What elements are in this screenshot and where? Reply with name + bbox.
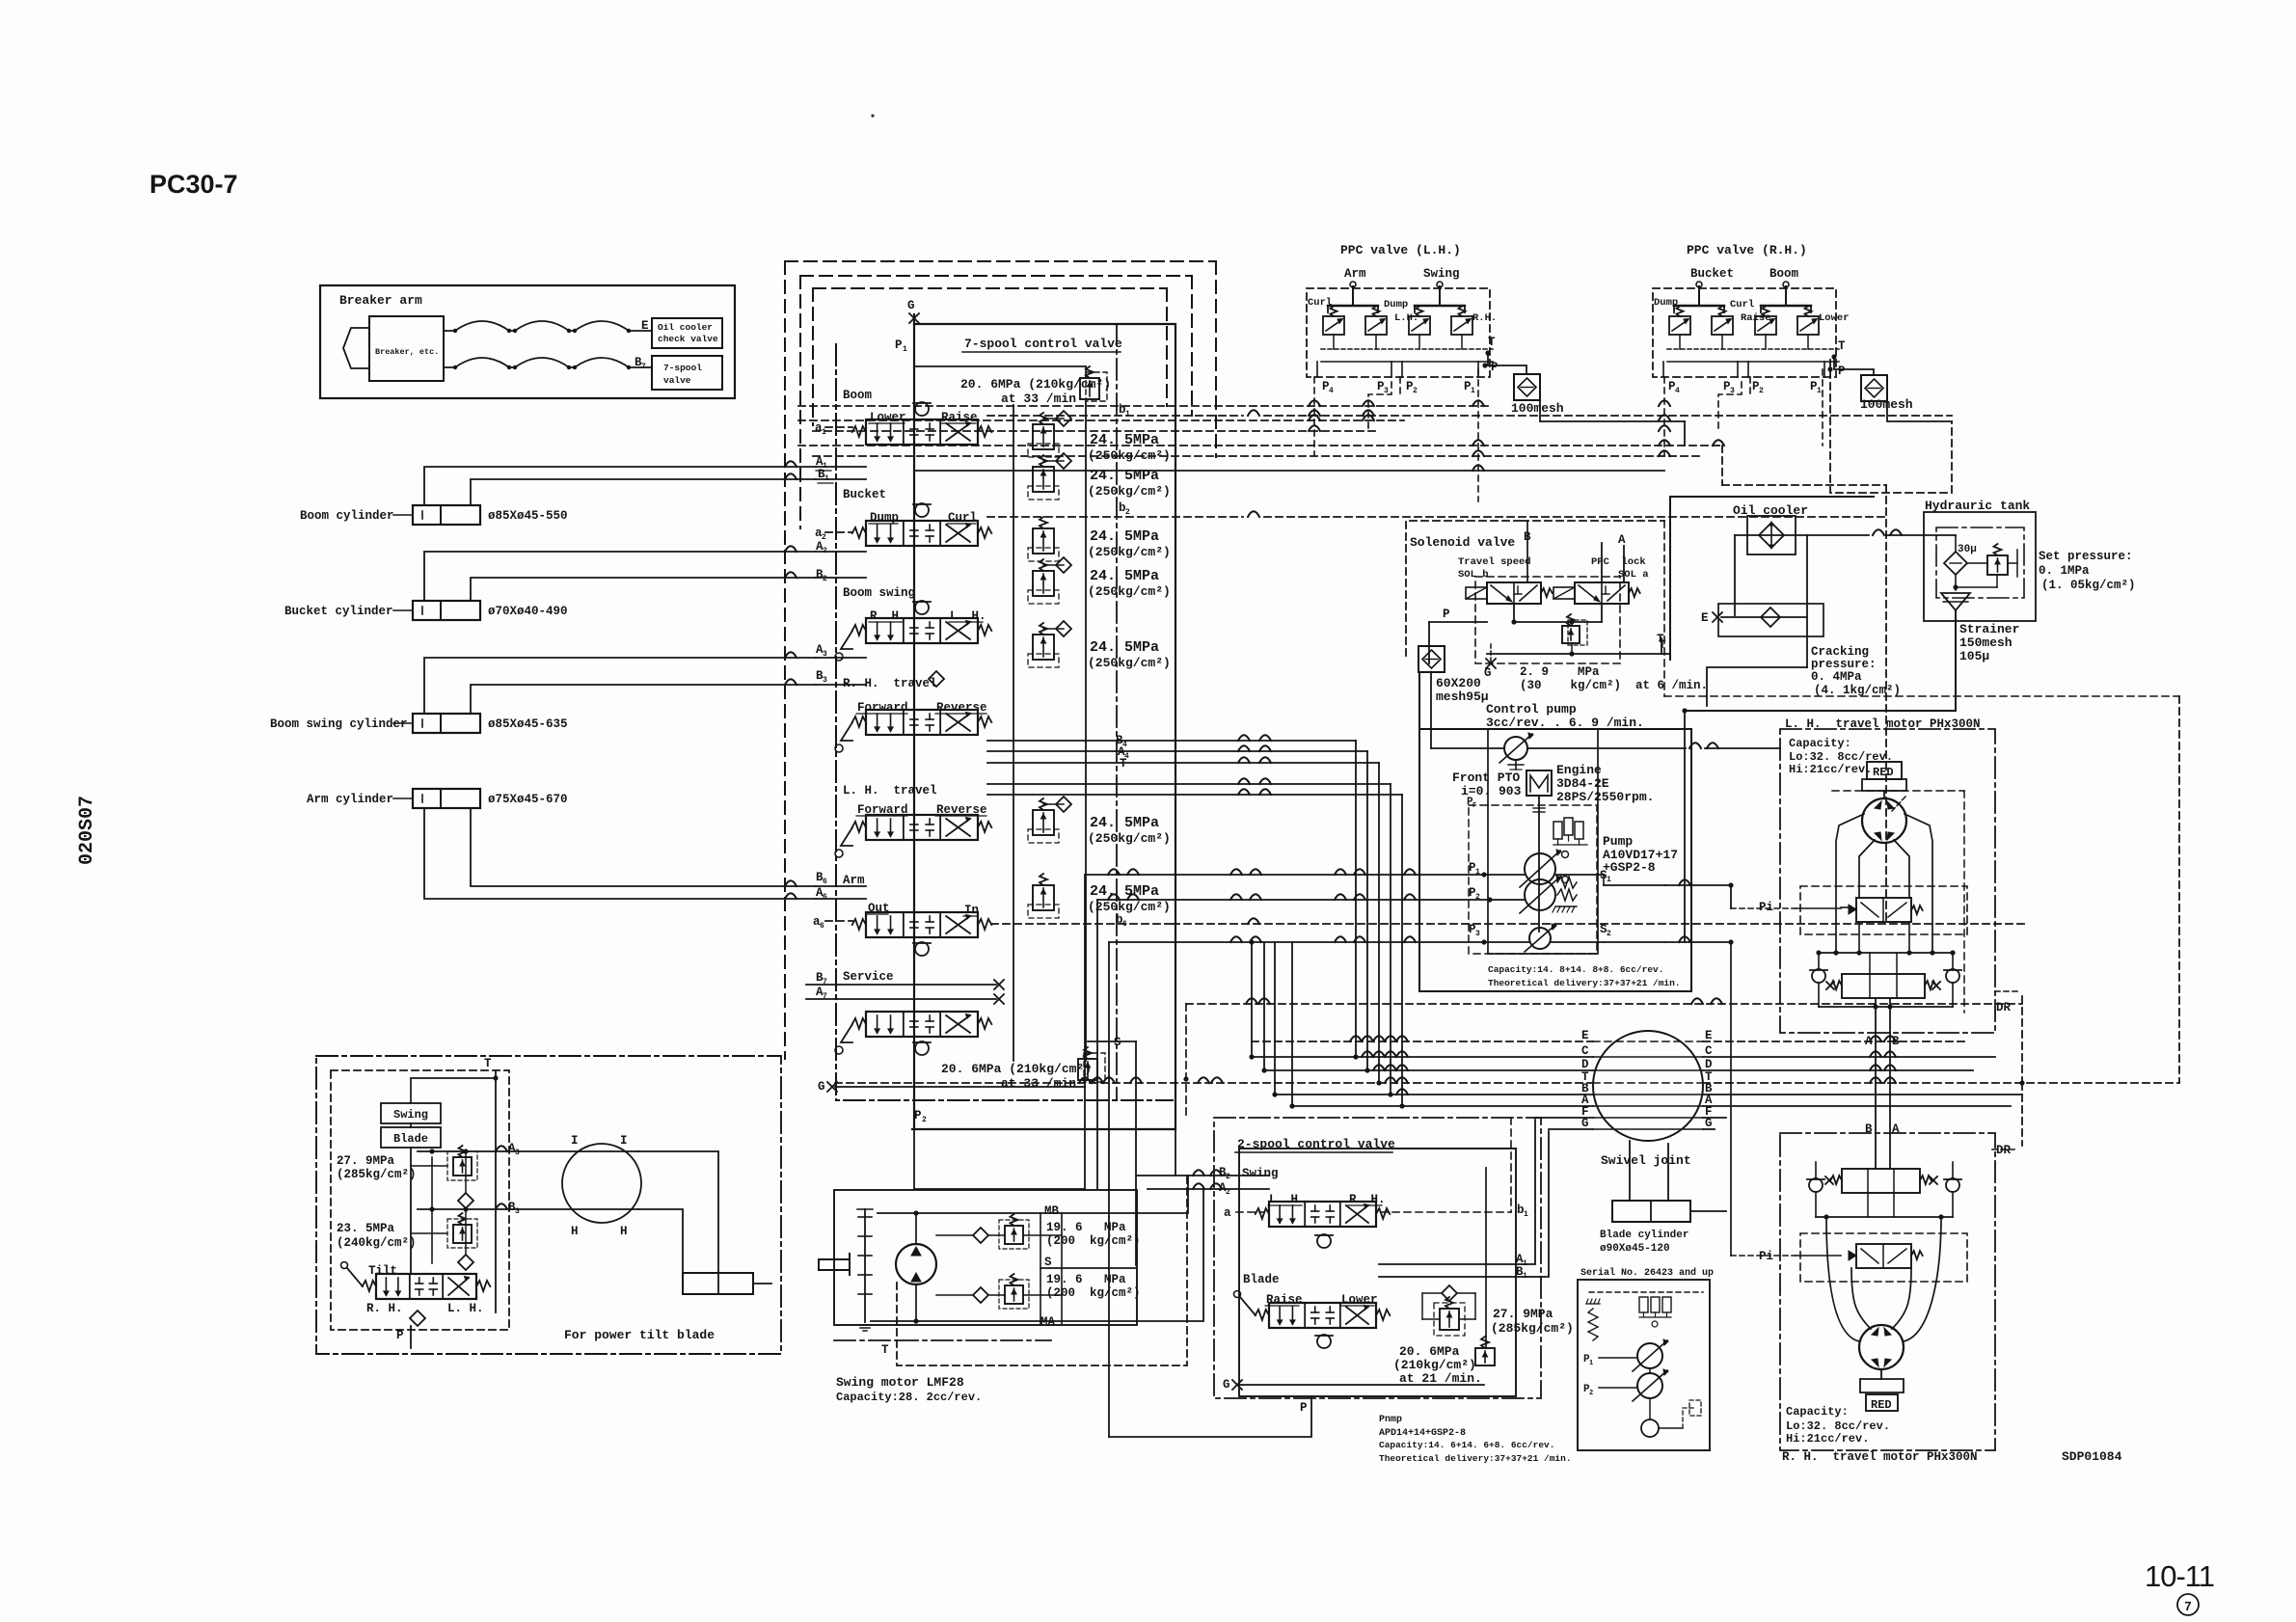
svg-text:T: T bbox=[881, 1343, 889, 1357]
svg-text:G: G bbox=[1484, 666, 1492, 680]
svg-text:6: 6 bbox=[820, 922, 824, 931]
svg-text:Pump: Pump bbox=[1603, 834, 1633, 849]
svg-text:30µ: 30µ bbox=[1958, 544, 1977, 555]
svg-text:Pnmp: Pnmp bbox=[1379, 1415, 1402, 1425]
svg-text:I: I bbox=[620, 1134, 628, 1148]
svg-text:Blade: Blade bbox=[393, 1132, 428, 1146]
svg-text:L. H.: L. H. bbox=[447, 1302, 484, 1315]
svg-text:E: E bbox=[1705, 1029, 1713, 1042]
svg-text:E: E bbox=[641, 319, 649, 333]
svg-text:(30 kg/cm²) at 6 /min.: (30 kg/cm²) at 6 /min. bbox=[1520, 679, 1708, 692]
svg-text:2: 2 bbox=[1125, 508, 1130, 517]
svg-text:ø85Xø45-550: ø85Xø45-550 bbox=[488, 509, 568, 523]
svg-text:ø75Xø45-670: ø75Xø45-670 bbox=[488, 793, 568, 806]
svg-text:P: P bbox=[396, 1329, 404, 1342]
svg-text:Arm cylinder: Arm cylinder bbox=[307, 793, 393, 806]
svg-text:Dump: Dump bbox=[1654, 297, 1678, 309]
svg-text:SOL a: SOL a bbox=[1618, 569, 1649, 581]
svg-text:2. 9 MPa: 2. 9 MPa bbox=[1520, 665, 1600, 679]
svg-text:1: 1 bbox=[824, 474, 829, 483]
svg-text:(210kg/cm²): (210kg/cm²) bbox=[1393, 1358, 1476, 1372]
svg-text:24. 5MPa: 24. 5MPa bbox=[1090, 528, 1159, 545]
svg-text:R. H.: R. H. bbox=[870, 609, 906, 623]
svg-text:0. 4MPa: 0. 4MPa bbox=[1811, 670, 1862, 684]
svg-text:MA: MA bbox=[1040, 1315, 1056, 1329]
svg-text:at 33 /min: at 33 /min bbox=[1001, 392, 1076, 406]
svg-text:H: H bbox=[620, 1225, 628, 1238]
svg-text:Strainer: Strainer bbox=[1959, 622, 2019, 636]
svg-text:P: P bbox=[1443, 608, 1450, 621]
svg-text:Raise: Raise bbox=[1741, 312, 1771, 324]
svg-text:G: G bbox=[1223, 1378, 1230, 1392]
svg-text:Breaker, etc.: Breaker, etc. bbox=[375, 347, 439, 357]
svg-text:L.H.: L.H. bbox=[1394, 312, 1418, 324]
svg-text:28PS/2550rpm.: 28PS/2550rpm. bbox=[1556, 790, 1654, 804]
svg-text:SOL b: SOL b bbox=[1458, 569, 1489, 581]
svg-text:T: T bbox=[1838, 339, 1846, 353]
svg-text:1: 1 bbox=[1471, 387, 1475, 395]
svg-text:S: S bbox=[1114, 1036, 1121, 1049]
svg-text:Capacity:14. 6+14. 6+8. 6cc/re: Capacity:14. 6+14. 6+8. 6cc/rev. bbox=[1379, 1440, 1554, 1450]
svg-text:7: 7 bbox=[2184, 1599, 2191, 1613]
svg-text:Boom cylinder: Boom cylinder bbox=[300, 509, 394, 523]
svg-text:Lower: Lower bbox=[870, 411, 906, 424]
svg-text:Dump: Dump bbox=[1384, 299, 1408, 311]
svg-text:020S07: 020S07 bbox=[76, 796, 98, 865]
svg-text:check valve: check valve bbox=[658, 334, 718, 344]
svg-text:Forward: Forward bbox=[857, 701, 908, 715]
svg-text:150mesh: 150mesh bbox=[1959, 635, 2012, 650]
svg-text:E: E bbox=[1581, 1029, 1589, 1042]
svg-text:Bucket: Bucket bbox=[843, 488, 886, 501]
svg-text:27. 9MPa: 27. 9MPa bbox=[337, 1154, 395, 1168]
svg-text:1: 1 bbox=[1524, 1210, 1528, 1219]
svg-text:pressure:: pressure: bbox=[1811, 658, 1877, 671]
svg-text:3: 3 bbox=[1475, 930, 1480, 938]
svg-text:Blade cylinder: Blade cylinder bbox=[1600, 1230, 1688, 1241]
svg-text:Oil cooler: Oil cooler bbox=[658, 322, 713, 333]
svg-text:3: 3 bbox=[515, 1149, 520, 1157]
svg-text:RED: RED bbox=[1871, 1398, 1892, 1412]
svg-text:(285kg/cm²): (285kg/cm²) bbox=[337, 1168, 417, 1181]
svg-text:60X200: 60X200 bbox=[1436, 676, 1481, 690]
svg-text:10-11: 10-11 bbox=[2145, 1559, 2214, 1593]
svg-text:Swing motor LMF28: Swing motor LMF28 bbox=[836, 1375, 964, 1390]
svg-text:7-spool control valve: 7-spool control valve bbox=[964, 337, 1122, 351]
svg-text:PPC valve (R.H.): PPC valve (R.H.) bbox=[1687, 243, 1807, 257]
svg-text:(250kg/cm²): (250kg/cm²) bbox=[1088, 656, 1171, 670]
svg-text:(250kg/cm²): (250kg/cm²) bbox=[1088, 831, 1171, 846]
svg-text:Swing: Swing bbox=[1242, 1167, 1279, 1180]
svg-text:P: P bbox=[914, 1109, 922, 1122]
svg-text:B: B bbox=[1865, 1122, 1873, 1136]
svg-text:DR: DR bbox=[1996, 1001, 2012, 1014]
svg-text:6: 6 bbox=[823, 878, 827, 886]
svg-text:A: A bbox=[1892, 1122, 1900, 1136]
svg-text:20. 6MPa (210kg/cm²): 20. 6MPa (210kg/cm²) bbox=[941, 1062, 1092, 1076]
svg-text:valve: valve bbox=[663, 375, 691, 386]
svg-text:2: 2 bbox=[823, 547, 827, 555]
svg-text:MB: MB bbox=[1044, 1204, 1060, 1218]
svg-text:7: 7 bbox=[641, 363, 646, 371]
svg-text:Theoretical delivery:37+37+21: Theoretical delivery:37+37+21 /min. bbox=[1488, 978, 1681, 988]
svg-text:Solenoid valve: Solenoid valve bbox=[1410, 535, 1515, 550]
svg-text:T: T bbox=[1120, 757, 1127, 770]
svg-text:Set pressure:: Set pressure: bbox=[2039, 550, 2133, 563]
svg-text:24. 5MPa: 24. 5MPa bbox=[1090, 639, 1159, 656]
svg-text:DR: DR bbox=[1996, 1144, 2012, 1157]
svg-text:(250kg/cm²): (250kg/cm²) bbox=[1088, 545, 1171, 559]
svg-text:Dump: Dump bbox=[870, 511, 899, 525]
svg-text:PPC valve (L.H.): PPC valve (L.H.) bbox=[1340, 243, 1461, 257]
svg-text:Boom: Boom bbox=[843, 389, 873, 402]
svg-text:Curl: Curl bbox=[948, 511, 977, 525]
svg-text:L. H.: L. H. bbox=[1269, 1193, 1306, 1206]
svg-text:Pi: Pi bbox=[1759, 1250, 1773, 1263]
svg-text:A: A bbox=[1865, 1035, 1873, 1048]
svg-text:P: P bbox=[895, 338, 903, 352]
svg-text:23. 5MPa: 23. 5MPa bbox=[337, 1222, 395, 1235]
svg-text:Arm: Arm bbox=[1344, 267, 1366, 281]
svg-text:24. 5MPa: 24. 5MPa bbox=[1090, 815, 1159, 831]
svg-text:Breaker arm: Breaker arm bbox=[339, 293, 422, 308]
svg-text:2: 2 bbox=[823, 575, 827, 583]
svg-text:Raise: Raise bbox=[941, 411, 978, 424]
svg-text:6: 6 bbox=[823, 893, 827, 902]
svg-text:T: T bbox=[1488, 336, 1496, 349]
svg-text:Theoretical delivery:37+37+21: Theoretical delivery:37+37+21 /min. bbox=[1379, 1453, 1572, 1464]
svg-text:Curl: Curl bbox=[1308, 297, 1332, 309]
svg-text:A: A bbox=[1618, 533, 1626, 547]
svg-text:1: 1 bbox=[1589, 1360, 1593, 1367]
svg-text:Boom swing: Boom swing bbox=[843, 586, 915, 600]
svg-text:G: G bbox=[1581, 1117, 1589, 1130]
svg-text:Pi: Pi bbox=[1759, 901, 1773, 914]
svg-text:C: C bbox=[1581, 1044, 1589, 1058]
svg-text:Capacity:14. 8+14. 8+8. 6cc/re: Capacity:14. 8+14. 8+8. 6cc/rev. bbox=[1488, 964, 1663, 975]
svg-text:Tilt: Tilt bbox=[368, 1264, 397, 1278]
svg-text:Lower: Lower bbox=[1341, 1293, 1378, 1307]
svg-text:3: 3 bbox=[823, 676, 827, 685]
svg-text:1: 1 bbox=[1607, 876, 1611, 884]
svg-text:H: H bbox=[571, 1225, 579, 1238]
svg-text:L. H. travel: L. H. travel bbox=[843, 784, 937, 797]
svg-text:Cracking: Cracking bbox=[1811, 645, 1869, 659]
svg-text:24. 5MPa: 24. 5MPa bbox=[1090, 883, 1159, 900]
svg-text:(4. 1kg/cm²): (4. 1kg/cm²) bbox=[1814, 684, 1901, 697]
svg-text:APD14+14+GSP2-8: APD14+14+GSP2-8 bbox=[1379, 1428, 1466, 1439]
svg-text:P: P bbox=[1491, 361, 1499, 374]
svg-text:2: 2 bbox=[1413, 387, 1418, 395]
svg-text:3: 3 bbox=[823, 650, 827, 659]
svg-text:P: P bbox=[1838, 365, 1846, 378]
svg-text:20. 6MPa: 20. 6MPa bbox=[1399, 1344, 1460, 1359]
svg-text:2: 2 bbox=[1226, 1173, 1230, 1181]
svg-text:(250kg/cm²): (250kg/cm²) bbox=[1088, 900, 1171, 914]
svg-text:P: P bbox=[1300, 1401, 1308, 1415]
svg-text:RED: RED bbox=[1873, 766, 1894, 779]
svg-text:Swing: Swing bbox=[1423, 267, 1460, 281]
svg-text:2: 2 bbox=[1759, 387, 1764, 395]
svg-text:(200 kg/cm²): (200 kg/cm²) bbox=[1046, 1286, 1141, 1300]
svg-text:G: G bbox=[1705, 1117, 1713, 1130]
svg-text:Raise: Raise bbox=[1266, 1293, 1303, 1307]
svg-text:(250kg/cm²): (250kg/cm²) bbox=[1088, 584, 1171, 599]
svg-text:Curl: Curl bbox=[1730, 299, 1754, 311]
svg-text:Swing: Swing bbox=[393, 1108, 428, 1122]
svg-text:2: 2 bbox=[1589, 1390, 1593, 1397]
svg-text:SDP01084: SDP01084 bbox=[2062, 1449, 2122, 1464]
svg-text:B: B bbox=[1892, 1035, 1900, 1048]
svg-text:Bucket cylinder: Bucket cylinder bbox=[284, 605, 393, 618]
svg-text:19. 6 MPa: 19. 6 MPa bbox=[1046, 1273, 1126, 1286]
svg-text:Capacity:: Capacity: bbox=[1786, 1405, 1849, 1419]
svg-text:0. 1MPa: 0. 1MPa bbox=[2039, 564, 2090, 578]
svg-text:(250kg/cm²): (250kg/cm²) bbox=[1088, 484, 1171, 499]
svg-text:Boom swing cylinder: Boom swing cylinder bbox=[270, 717, 408, 731]
svg-text:2: 2 bbox=[922, 1116, 927, 1124]
svg-text:+GSP2-8: +GSP2-8 bbox=[1603, 860, 1656, 875]
svg-text:19. 6 MPa: 19. 6 MPa bbox=[1046, 1221, 1126, 1234]
svg-text:4: 4 bbox=[1675, 387, 1680, 395]
svg-text:D: D bbox=[1705, 1058, 1713, 1071]
svg-text:1: 1 bbox=[1817, 387, 1822, 395]
svg-text:7-spool: 7-spool bbox=[663, 363, 702, 373]
svg-text:Travel speed: Travel speed bbox=[1458, 556, 1531, 568]
svg-text:R. H.: R. H. bbox=[366, 1302, 403, 1315]
svg-text:PC30-7: PC30-7 bbox=[149, 170, 238, 199]
svg-text:T: T bbox=[484, 1057, 492, 1070]
svg-text:Bucket: Bucket bbox=[1690, 267, 1734, 281]
svg-text:ø85Xø45-635: ø85Xø45-635 bbox=[488, 717, 568, 731]
svg-text:24. 5MPa: 24. 5MPa bbox=[1090, 568, 1159, 584]
svg-text:Blade: Blade bbox=[1243, 1273, 1280, 1286]
svg-text:Lower: Lower bbox=[1819, 312, 1850, 324]
svg-text:D: D bbox=[1581, 1058, 1589, 1071]
svg-text:C: C bbox=[1705, 1044, 1713, 1058]
svg-text:4: 4 bbox=[1329, 387, 1334, 395]
svg-text:Hi:21cc/rev.: Hi:21cc/rev. bbox=[1789, 763, 1872, 776]
svg-text:(240kg/cm²): (240kg/cm²) bbox=[337, 1236, 417, 1250]
svg-text:Front PTO: Front PTO bbox=[1452, 770, 1520, 785]
svg-text:a: a bbox=[1224, 1206, 1231, 1220]
svg-text:ø90Xø45-120: ø90Xø45-120 bbox=[1600, 1243, 1670, 1255]
svg-text:R. H. travel motor PHx300N: R. H. travel motor PHx300N bbox=[1782, 1450, 1978, 1464]
svg-text:Hi:21cc/rev.: Hi:21cc/rev. bbox=[1786, 1432, 1869, 1446]
svg-text:at 21 /min.: at 21 /min. bbox=[1399, 1371, 1482, 1386]
svg-text:1: 1 bbox=[903, 345, 907, 354]
svg-text:For power tilt blade: For power tilt blade bbox=[564, 1328, 715, 1342]
svg-text:(200 kg/cm²): (200 kg/cm²) bbox=[1046, 1234, 1141, 1248]
svg-text:105µ: 105µ bbox=[1959, 649, 1989, 663]
svg-text:Lo:32. 8cc/rev.: Lo:32. 8cc/rev. bbox=[1786, 1419, 1890, 1433]
svg-text:Service: Service bbox=[843, 970, 894, 984]
svg-text:mesh95µ: mesh95µ bbox=[1436, 689, 1489, 704]
svg-text:1: 1 bbox=[1125, 410, 1130, 419]
svg-text:S: S bbox=[1044, 1256, 1052, 1269]
svg-text:(285kg/cm²): (285kg/cm²) bbox=[1491, 1321, 1574, 1336]
svg-text:100mesh: 100mesh bbox=[1511, 401, 1564, 416]
svg-text:PPC lock: PPC lock bbox=[1591, 556, 1646, 568]
svg-text:Reverse: Reverse bbox=[936, 701, 987, 715]
svg-text:Serial No. 26423 and up: Serial No. 26423 and up bbox=[1580, 1267, 1714, 1279]
svg-text:G: G bbox=[818, 1080, 825, 1094]
svg-text:Swivel joint: Swivel joint bbox=[1601, 1153, 1691, 1168]
svg-text:ø70Xø40-490: ø70Xø40-490 bbox=[488, 605, 568, 618]
svg-text:R.H.: R.H. bbox=[1472, 312, 1497, 324]
svg-text:Hydrauric tank: Hydrauric tank bbox=[1925, 499, 2030, 513]
svg-text:3D84-2E: 3D84-2E bbox=[1556, 776, 1609, 791]
svg-text:Engine: Engine bbox=[1556, 763, 1602, 777]
svg-text:2: 2 bbox=[1607, 930, 1611, 938]
svg-text:R. H. travel: R. H. travel bbox=[843, 677, 937, 690]
svg-text:3cc/rev. . 6. 9 /min.: 3cc/rev. . 6. 9 /min. bbox=[1486, 716, 1644, 730]
svg-text:G: G bbox=[907, 299, 915, 312]
svg-text:(1. 05kg/cm²): (1. 05kg/cm²) bbox=[2041, 579, 2136, 592]
svg-text:27. 9MPa: 27. 9MPa bbox=[1493, 1307, 1553, 1321]
svg-text:Control pump: Control pump bbox=[1486, 702, 1577, 716]
svg-text:Arm: Arm bbox=[843, 874, 865, 887]
svg-text:F: F bbox=[1472, 802, 1476, 810]
svg-text:I: I bbox=[571, 1134, 579, 1148]
svg-text:Capacity:: Capacity: bbox=[1789, 737, 1851, 750]
svg-text:E: E bbox=[1701, 611, 1709, 625]
svg-text:Boom: Boom bbox=[1769, 267, 1799, 281]
svg-text:1: 1 bbox=[822, 428, 826, 437]
svg-text:Capacity:28. 2cc/rev.: Capacity:28. 2cc/rev. bbox=[836, 1391, 982, 1404]
